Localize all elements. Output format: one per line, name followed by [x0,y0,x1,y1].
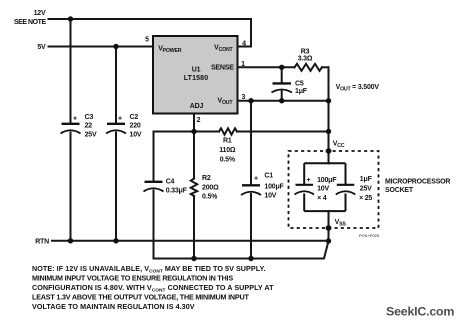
svg-text:R1: R1 [223,137,232,144]
svg-text:LT1580: LT1580 [184,75,209,82]
svg-text:25V: 25V [85,132,97,139]
svg-text:4: 4 [242,41,246,48]
svg-text:SeekIC.com: SeekIC.com [386,304,454,318]
svg-text:5: 5 [145,37,149,44]
svg-text:C1: C1 [264,173,273,180]
svg-text:5V: 5V [37,44,46,51]
svg-text:SOCKET: SOCKET [385,187,414,194]
svg-text:0.5%: 0.5% [220,157,236,164]
svg-text:3: 3 [241,94,245,101]
svg-text:R3: R3 [301,49,310,56]
svg-text:PCN+P025: PCN+P025 [359,233,380,238]
svg-text:22: 22 [85,123,93,130]
svg-text:C3: C3 [85,114,94,121]
svg-text:MINIMUM INPUT VOLTAGE TO ENSUR: MINIMUM INPUT VOLTAGE TO ENSURE REGULATI… [32,274,233,283]
svg-text:SEE NOTE: SEE NOTE [14,19,47,26]
svg-text:U1: U1 [192,66,201,73]
svg-text:+: + [254,175,258,182]
svg-text:+: + [307,177,311,184]
svg-text:1: 1 [241,61,245,68]
svg-text:25V: 25V [360,186,372,193]
svg-text:× 4: × 4 [317,195,327,202]
svg-text:100μF: 100μF [317,177,337,184]
svg-text:+: + [73,116,77,123]
svg-text:SENSE: SENSE [211,64,234,71]
svg-text:10V: 10V [130,132,142,139]
svg-text:110Ω: 110Ω [219,147,236,154]
svg-text:10V: 10V [317,186,329,193]
svg-text:200Ω: 200Ω [202,184,219,191]
svg-text:RTN: RTN [35,238,49,245]
svg-text:2: 2 [197,117,201,124]
svg-text:12V: 12V [34,10,46,17]
svg-text:C5: C5 [295,81,304,88]
svg-text:1μF: 1μF [360,176,373,183]
svg-text:× 25: × 25 [359,195,372,202]
svg-text:C4: C4 [166,179,175,186]
svg-text:10V: 10V [264,193,276,200]
svg-text:0.5%: 0.5% [202,194,218,201]
svg-text:C2: C2 [130,114,139,121]
svg-text:3.3Ω: 3.3Ω [298,56,313,63]
svg-text:LEAST 1.3V ABOVE THE OUTPUT VO: LEAST 1.3V ABOVE THE OUTPUT VOLTAGE, THE… [32,293,249,302]
svg-text:+: + [118,116,122,123]
svg-text:220: 220 [130,123,141,130]
svg-text:VOLTAGE TO MAINTAIN REGULATION: VOLTAGE TO MAINTAIN REGULATION IS 4.30V [32,302,195,311]
svg-text:R2: R2 [202,175,211,182]
svg-text:100μF: 100μF [264,184,284,191]
svg-text:1μF: 1μF [295,88,308,95]
svg-text:ADJ: ADJ [190,103,204,110]
svg-text:0.33μF: 0.33μF [166,188,188,195]
svg-text:MICROPROCESSOR: MICROPROCESSOR [385,178,450,185]
